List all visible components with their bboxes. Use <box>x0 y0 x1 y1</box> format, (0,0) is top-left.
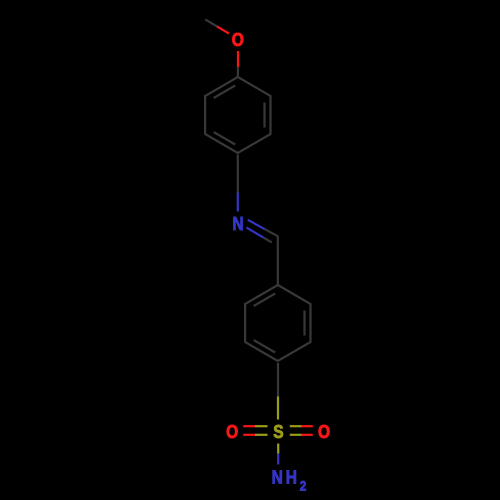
bond S-N (to amide NH2) <box>277 444 279 465</box>
benzene ring 2 (benzenesulfonamide) outer bonds <box>245 285 310 361</box>
benzene ring 1 (methoxyphenyl) outer bonds <box>205 77 270 153</box>
bond CH-C1(ring2) vertical <box>277 236 279 285</box>
double bond S=O left (two parallel lines) <box>243 426 267 435</box>
svg-text:N: N <box>232 214 243 235</box>
svg-text:O: O <box>318 422 330 443</box>
bond C4(ring2)-S <box>277 363 279 420</box>
svg-text:H: H <box>286 467 297 488</box>
bond CH3-O (methyl to ether oxygen) <box>205 19 229 33</box>
svg-text:N: N <box>272 467 283 488</box>
benzene ring 2 inner double-bond lines <box>254 294 305 353</box>
double bond N=CH main line <box>248 220 278 236</box>
svg-text:O: O <box>232 30 244 51</box>
double bond N=CH inner line <box>247 228 272 243</box>
benzene ring 1 inner double-bond lines <box>214 86 265 145</box>
svg-text:2: 2 <box>300 477 307 493</box>
double bond S=O right (two parallel lines) <box>290 426 313 435</box>
svg-text:O: O <box>226 422 238 443</box>
bond C4(ring1)-N (aniline nitrogen) <box>237 155 239 212</box>
atom label NH2 (sulfonamide nitrogen) <box>272 467 307 493</box>
svg-text:S: S <box>273 422 283 443</box>
bond O-C1 (oxygen to ring1 top carbon) <box>237 51 239 77</box>
